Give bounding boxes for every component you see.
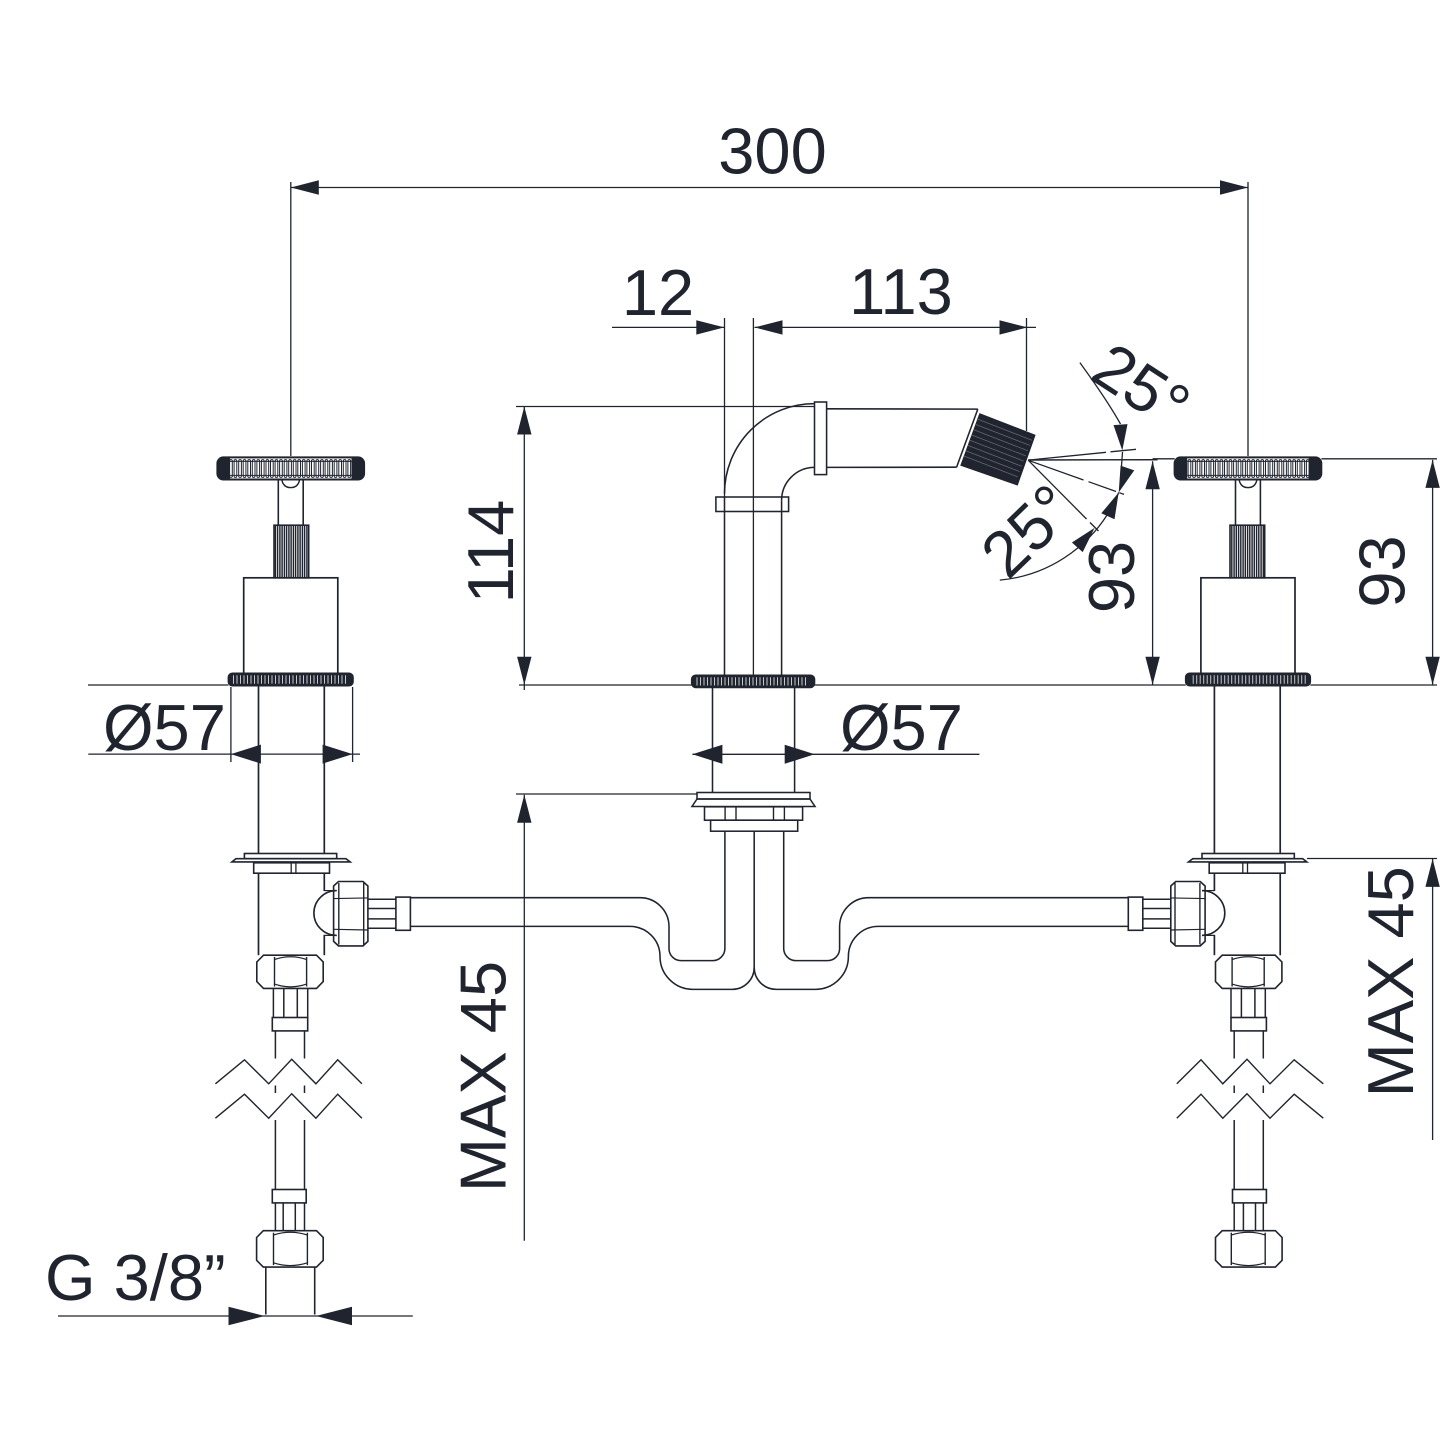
svg-text:93: 93 <box>1346 535 1419 607</box>
svg-text:93: 93 <box>1075 541 1148 613</box>
svg-text:Ø57: Ø57 <box>103 691 226 764</box>
svg-text:MAX 45: MAX 45 <box>447 961 520 1192</box>
svg-text:300: 300 <box>718 115 826 188</box>
svg-text:114: 114 <box>454 500 527 604</box>
svg-text:113: 113 <box>849 255 953 328</box>
svg-text:G 3/8”: G 3/8” <box>45 1241 226 1314</box>
svg-text:12: 12 <box>622 256 694 329</box>
svg-text:MAX 45: MAX 45 <box>1354 866 1427 1097</box>
svg-text:Ø57: Ø57 <box>840 691 963 764</box>
